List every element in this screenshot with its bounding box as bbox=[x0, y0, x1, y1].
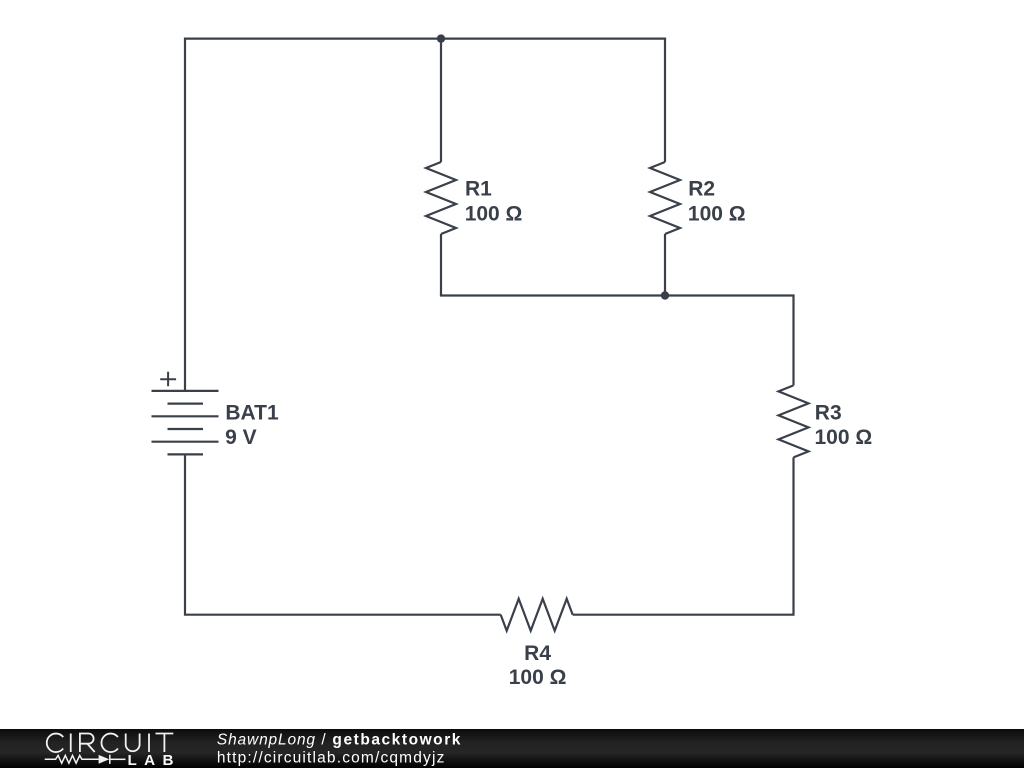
svg-text:R1: R1 bbox=[465, 177, 492, 200]
footer author / title text bbox=[217, 731, 462, 748]
svg-text:LAB: LAB bbox=[128, 752, 181, 768]
long plate 3 bbox=[152, 441, 219, 443]
svg-text:9 V: 9 V bbox=[225, 426, 257, 449]
svg-text:R2: R2 bbox=[688, 177, 715, 200]
resistor R4 bbox=[501, 599, 573, 631]
footer url text bbox=[217, 749, 446, 766]
junction node top (R1 / top rail) bbox=[437, 34, 445, 42]
battery BAT1 bbox=[152, 372, 219, 455]
plus sign bbox=[160, 372, 176, 387]
svg-text:BAT1: BAT1 bbox=[225, 401, 279, 424]
wire left vertical lower (battery - terminal) + bottom rail left segment bbox=[185, 454, 501, 614]
junction node middle (R2 / middle rail) bbox=[661, 291, 669, 299]
label R3 100ohm bbox=[815, 401, 873, 449]
label BAT1 9V bbox=[225, 401, 279, 449]
short plate 3 bbox=[168, 453, 204, 455]
wire right vertical lower (R3 to bottom rail) + bottom rail right segment bbox=[573, 457, 794, 614]
long plate 1 bbox=[152, 390, 219, 392]
label R2 100ohm bbox=[688, 177, 746, 225]
svg-text:R3: R3 bbox=[815, 401, 842, 424]
svg-text:http://circuitlab.com/cqmdyjz: http://circuitlab.com/cqmdyjz bbox=[217, 749, 446, 766]
footer bar bbox=[0, 729, 1024, 768]
svg-text:100 Ω: 100 Ω bbox=[465, 202, 523, 225]
CircuitLab logo LAB wordmark bbox=[128, 752, 181, 768]
resistor R2 bbox=[650, 39, 680, 296]
svg-text:100 Ω: 100 Ω bbox=[509, 666, 567, 689]
resistor R1 bbox=[426, 39, 456, 296]
CircuitLab logo resistor-diode doodle bbox=[45, 755, 126, 764]
short plate 2 bbox=[168, 428, 204, 430]
short plate 1 bbox=[168, 403, 204, 405]
resistor R3 bbox=[779, 385, 809, 457]
label R4 100ohm bbox=[509, 642, 567, 689]
label R1 100ohm bbox=[465, 177, 523, 225]
svg-text:100 Ω: 100 Ω bbox=[688, 202, 746, 225]
svg-text:100 Ω: 100 Ω bbox=[815, 426, 873, 449]
CircuitLab logo CIRCUIT wordmark bbox=[47, 734, 174, 753]
wire top rail + left vertical upper (battery + terminal to top rail) bbox=[185, 39, 666, 391]
svg-text:ShawnpLong / getbacktowork: ShawnpLong / getbacktowork bbox=[217, 731, 462, 748]
long plate 2 bbox=[152, 415, 219, 417]
svg-text:R4: R4 bbox=[524, 642, 551, 665]
wire middle rail + right vertical upper (to R3) bbox=[440, 296, 794, 386]
